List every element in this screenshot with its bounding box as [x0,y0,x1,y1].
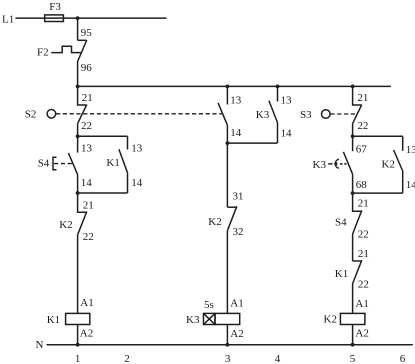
junction bus left [76,85,80,89]
svg-text:A1: A1 [230,298,243,310]
junction right rejoin [351,191,355,195]
svg-text:67: 67 [356,143,368,155]
junction middle rejoin [226,141,230,145]
wire L1 top line [15,17,166,19]
wire [352,234,354,261]
svg-text:32: 32 [233,226,244,238]
svg-text:K3: K3 [256,109,270,121]
svg-text:14: 14 [81,177,93,189]
svg-text:96: 96 [81,62,93,74]
svg-text:K1: K1 [335,268,348,280]
svg-text:68: 68 [356,179,368,191]
wire branch bottom [78,192,128,194]
junction right split [351,134,355,138]
svg-text:2: 2 [124,353,130,364]
wire [77,235,79,314]
svg-text:5: 5 [350,353,356,364]
svg-text:K1: K1 [47,314,60,326]
svg-text:K1: K1 [106,157,119,169]
svg-text:K2: K2 [208,216,221,228]
svg-text:F2: F2 [37,46,49,58]
svg-text:5s: 5s [204,299,214,311]
wire dashed link S3 [330,113,357,115]
wire [352,325,354,345]
junction bus middle [226,85,230,89]
svg-text:A2: A2 [80,328,93,340]
svg-text:F3: F3 [49,1,61,13]
svg-text:22: 22 [81,120,92,132]
svg-text:N: N [36,339,44,351]
svg-text:21: 21 [82,92,93,104]
svg-text:21: 21 [83,199,94,211]
junction N middle [226,343,230,347]
junction N right [351,343,355,347]
junction N left [76,343,80,347]
wire [226,231,228,314]
svg-text:22: 22 [358,228,369,240]
svg-text:22: 22 [83,231,94,243]
svg-text:21: 21 [358,197,369,209]
contact S2-operated (NO 13-14) [226,86,228,104]
junction branch rejoin [76,191,80,195]
contact F2 (NC overload contact 95-96) [78,39,87,41]
svg-text:21: 21 [358,248,369,260]
svg-text:14: 14 [230,127,242,139]
svg-text:14: 14 [131,177,143,189]
svg-text:22: 22 [358,279,369,291]
svg-text:K3: K3 [313,159,327,171]
svg-text:3: 3 [225,353,231,364]
svg-text:13: 13 [406,144,415,156]
svg-text:95: 95 [81,27,93,39]
svg-text:14: 14 [406,179,415,191]
svg-text:S4: S4 [38,158,50,170]
svg-text:K2: K2 [59,219,72,231]
svg-text:31: 31 [233,191,244,203]
wire dashed link S2 [56,113,222,115]
svg-text:A1: A1 [80,297,93,309]
svg-text:A1: A1 [355,298,368,310]
contact S3 (NC pushbutton 21-22) [353,86,362,105]
wire [226,325,228,345]
svg-text:S2: S2 [25,109,37,121]
svg-text:4: 4 [275,353,281,364]
wire bus line [78,85,391,87]
wire middle rejoin [227,142,277,144]
svg-text:A2: A2 [230,328,243,340]
wire right branch bottom [353,192,403,194]
svg-text:14: 14 [281,127,293,139]
svg-text:13: 13 [131,143,143,155]
wire [77,325,79,345]
wire N line [47,344,413,346]
fuse F3 [45,15,64,22]
svg-text:K2: K2 [324,314,337,326]
svg-text:22: 22 [357,120,368,132]
wire down from L1 [77,18,79,40]
svg-text:K2: K2 [382,158,395,170]
contact S4 (NO 13-14) [77,136,79,152]
svg-text:A2: A2 [355,327,368,339]
junction bus right [351,85,355,89]
wire [77,62,79,87]
svg-text:13: 13 [81,143,93,155]
wire right branch top [353,135,403,137]
wire [352,284,354,314]
contact K3 delayed (NO 67-68) [352,136,354,151]
svg-text:L1: L1 [2,14,14,26]
junction branch split [76,134,80,138]
junction bus K3 [276,85,280,89]
svg-text:6: 6 [400,353,406,364]
contact S2 (NC pushbutton 21-22) [78,86,87,105]
wire branch top [78,135,128,137]
svg-text:S3: S3 [300,109,312,121]
svg-text:S4: S4 [335,217,347,229]
wire [226,143,228,207]
junction on L1 line [76,16,80,20]
svg-text:1: 1 [75,353,81,364]
svg-text:13: 13 [230,94,242,106]
svg-text:21: 21 [357,92,368,104]
svg-text:13: 13 [281,94,293,106]
svg-text:K3: K3 [186,314,200,326]
